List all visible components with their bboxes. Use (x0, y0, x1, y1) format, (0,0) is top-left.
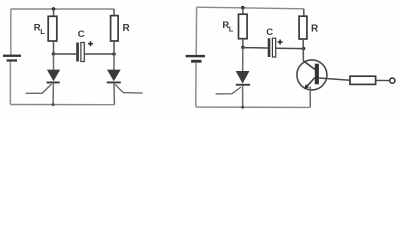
wire output box to terminal (376, 79, 390, 81)
thyristor SCR2 (107, 70, 121, 84)
wire node to capacitor left plate (54, 53, 77, 55)
transistor Q1 base lead to output (319, 78, 350, 80)
wire rail corner down to R (113, 9, 115, 16)
transistor Q1 collector diagonal (303, 61, 315, 70)
node junction dot cap/R branch (302, 47, 306, 51)
wire node to capacitor left plate (243, 47, 268, 49)
wire rail to RL (242, 8, 244, 15)
node junction dot top of RL branch (52, 7, 56, 11)
resistor RL (right circuit) (239, 14, 248, 39)
wire capacitor right plate to R node (85, 53, 115, 55)
resistor R (left circuit) (111, 16, 119, 41)
svg-text:R: R (123, 23, 131, 34)
output terminal circle (390, 78, 395, 83)
transistor Q1 base bar (315, 64, 319, 85)
svg-text:L: L (229, 25, 234, 34)
gate of SCR1 (26, 84, 52, 93)
battery B2 (186, 55, 205, 63)
node junction dot RL/cap (241, 46, 245, 50)
wire bottom rail right circuit (196, 106, 310, 108)
transistor Q1 circle (297, 60, 327, 90)
wire RL to cap node (242, 39, 244, 48)
wire top rail right circuit (197, 7, 304, 9)
node junction dot RL/cap (52, 52, 56, 56)
resistor RL (left circuit) (48, 16, 57, 41)
battery B1 (3, 55, 21, 62)
gate of SCR2 (115, 85, 142, 94)
thyristor SCR3 (236, 71, 250, 86)
transistor Q1 emitter diagonal with arrow (306, 78, 315, 88)
resistor R (right circuit) (299, 16, 307, 39)
capacitor C (left circuit, polarized) (76, 43, 84, 62)
wire left vertical to battery (195, 7, 197, 55)
svg-text:C: C (266, 27, 273, 38)
wire capacitor right plate to R branch (276, 47, 304, 49)
svg-text:L: L (40, 27, 45, 36)
wire node down to SCR3 (242, 47, 244, 71)
node junction dot top of RL branch (241, 6, 245, 10)
svg-text:C: C (78, 29, 85, 40)
wire SCR3 cathode to bottom rail (242, 86, 244, 108)
wire SCR1 cathode to bottom rail (52, 83, 54, 104)
node dot SCR1 on bottom rail (52, 103, 55, 106)
wire battery to bottom rail (195, 63, 197, 107)
wire node down to SCR1 (53, 54, 55, 70)
output resistor box (350, 76, 376, 84)
wire RL to cap node (53, 41, 55, 54)
wire rail to RL (53, 9, 55, 16)
wire rail corner down to R (303, 9, 305, 16)
node dot SCR3 on bottom rail (241, 106, 244, 109)
plus sign of C (88, 41, 93, 46)
capacitor C (right circuit, polarized) (268, 38, 276, 57)
wire SCR2 cathode to bottom rail (113, 83, 115, 104)
thyristor SCR1 (47, 70, 61, 84)
node junction dot R/cap (112, 52, 116, 56)
wire R down through node to transistor (302, 39, 304, 61)
wire battery to bottom rail (9, 62, 11, 105)
wire bottom rail left circuit (10, 104, 114, 106)
svg-text:R: R (311, 24, 319, 35)
wire R to node (113, 41, 115, 54)
transistor Q1 emitter wire down to rail (309, 87, 311, 108)
plus sign of C (278, 40, 283, 45)
wire node down to SCR2 (113, 54, 115, 70)
wire top rail left circuit (11, 8, 114, 10)
gate of SCR3 (216, 87, 241, 94)
wire left vertical from rail to battery (10, 9, 12, 55)
